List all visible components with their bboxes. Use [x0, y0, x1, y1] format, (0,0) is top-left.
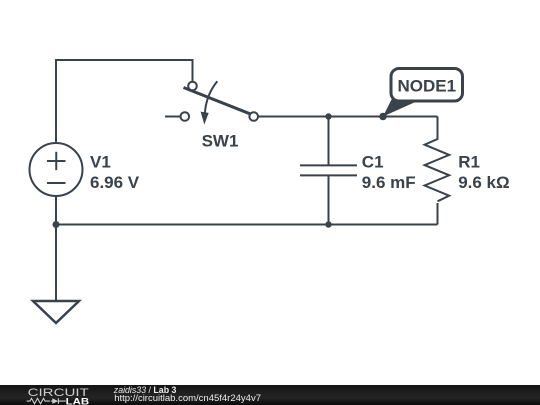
- svg-text:6.96 V: 6.96 V: [90, 173, 140, 192]
- V1 plus sign: [47, 160, 66, 162]
- wire ground stem: [55, 225, 57, 302]
- capacitor C1: [300, 117, 357, 225]
- SW1 actuation arrow arc: [205, 81, 218, 114]
- C1 top lead wire: [328, 117, 330, 166]
- svg-text:R1: R1: [458, 152, 480, 171]
- footer url line: [114, 393, 261, 403]
- svg-text:NODE1: NODE1: [397, 77, 456, 96]
- wire R1 bottom stub: [437, 203, 439, 225]
- wire V1 bottom: [55, 197, 57, 225]
- junction dot cap bottom: [325, 221, 331, 227]
- svg-text:C1: C1: [362, 152, 384, 171]
- C1 bottom plate: [300, 174, 357, 176]
- resistor R1: [425, 117, 450, 202]
- node dot NODE1: [379, 113, 387, 121]
- node NODE1 box: [391, 69, 463, 102]
- junction dot cap top: [325, 113, 331, 119]
- wire top-left loop V1 to SW1: [56, 60, 193, 143]
- switch SW1: [181, 81, 259, 120]
- C1 top plate: [300, 164, 357, 166]
- junction dot V1 bottom: [53, 221, 60, 228]
- ground: [33, 301, 79, 323]
- V1 minus sign: [47, 182, 66, 184]
- svg-text:9.6 kΩ: 9.6 kΩ: [458, 173, 509, 192]
- wire bottom rail: [56, 224, 438, 226]
- SW1 terminal right: [249, 112, 258, 121]
- svg-text:9.6 mF: 9.6 mF: [362, 173, 416, 192]
- footer bar: [0, 385, 540, 405]
- SW1 terminal top: [188, 82, 197, 91]
- switch arrowhead: [201, 112, 209, 125]
- SW1 blade: [184, 88, 251, 114]
- footer title line: [114, 385, 177, 395]
- C1 bottom lead wire: [328, 176, 330, 225]
- svg-text:LAB: LAB: [66, 396, 90, 405]
- wire SW1 left stub: [165, 116, 180, 118]
- wire top rail SW1 to R1: [258, 116, 437, 118]
- voltage source V1: [30, 143, 83, 196]
- V1 circle body: [30, 143, 83, 196]
- node NODE1 callout tail: [383, 100, 421, 117]
- CircuitLab logo: [0, 385, 110, 405]
- SW1 terminal left: [181, 112, 190, 121]
- svg-text:SW1: SW1: [202, 131, 239, 150]
- svg-text:V1: V1: [90, 152, 111, 171]
